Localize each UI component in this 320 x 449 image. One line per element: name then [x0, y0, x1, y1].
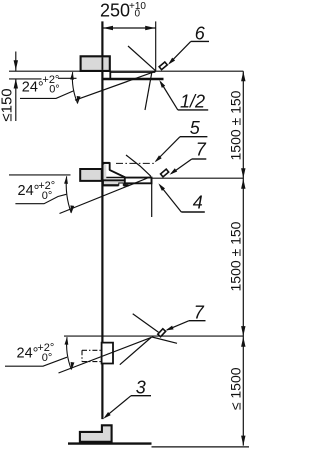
chain label 1500pm150 (top)	[228, 90, 244, 160]
callout 3	[103, 378, 151, 419]
svg-text:≤ 1500: ≤ 1500	[228, 367, 244, 410]
chain line	[242, 71, 244, 445]
top bevel ray 24deg	[75, 71, 156, 100]
third angle text tail	[5, 357, 67, 366]
svg-text:250: 250	[100, 0, 130, 20]
svg-text:6: 6	[195, 23, 206, 43]
chain arrows mid segment	[241, 179, 245, 336]
callout 7 middle	[170, 139, 207, 174]
callout 5	[155, 118, 208, 162]
dimension 250+10/0 text	[100, 0, 146, 20]
dim <=150 vertical line	[14, 52, 18, 122]
callout 4	[158, 183, 204, 212]
top bracket block (grey)	[81, 56, 111, 78]
svg-text:7: 7	[194, 303, 205, 323]
weld symbol at middle joint	[161, 169, 169, 177]
callout 1/2	[159, 80, 208, 111]
third end plate	[102, 343, 113, 364]
middle reference line (left)	[9, 174, 71, 176]
top reference line (extends left and right to chain)	[9, 70, 243, 72]
svg-text:0°: 0°	[49, 83, 60, 95]
middle extension line to chain	[152, 177, 243, 179]
third leader-in line	[133, 314, 159, 333]
svg-text:0°: 0°	[42, 352, 53, 364]
svg-text:1500 ± 150: 1500 ± 150	[228, 90, 244, 160]
svg-text:5: 5	[190, 118, 201, 138]
top plate top edge	[111, 71, 155, 73]
third angle label	[17, 342, 55, 364]
third short right line	[152, 337, 177, 343]
chain label <=1500 (bottom)	[228, 367, 244, 410]
chain arrows bottom segment	[241, 337, 245, 446]
top angle text tail	[20, 91, 74, 99]
third hidden bracket (dash-dot rect)	[82, 350, 104, 361]
top angle label 24deg +2/0	[9, 74, 77, 95]
dim 250 dimension line	[102, 26, 155, 30]
middle angle text tail	[15, 194, 66, 203]
svg-text:7: 7	[196, 139, 207, 159]
callout 7 third	[165, 303, 205, 331]
svg-text:0°: 0°	[42, 190, 53, 202]
chain label 1500pm150 (mid)	[228, 221, 244, 291]
middle left bar (grey)	[80, 169, 102, 181]
callout 6	[168, 23, 209, 64]
top short drop line	[145, 73, 152, 111]
third angle arc	[65, 337, 75, 371]
base block (grey step)	[80, 425, 112, 442]
ground line (bold)	[68, 442, 152, 444]
middle bracket flange strip	[103, 180, 128, 185]
svg-text:24°: 24°	[17, 345, 39, 361]
ground line thin extension	[152, 446, 250, 448]
dim <=150 text	[0, 88, 15, 121]
top leader-in line	[128, 46, 156, 71]
weld symbol at third joint	[158, 329, 166, 337]
svg-text:24°: 24°	[18, 183, 40, 199]
third extension line	[64, 335, 243, 337]
svg-text:3: 3	[136, 378, 146, 398]
middle vertical drop line	[151, 178, 153, 217]
weld symbol at top joint	[159, 62, 167, 70]
column (vertical pipe/profile)	[101, 21, 103, 419]
svg-text:1/2: 1/2	[180, 91, 205, 111]
top plate (bold bottom bar)	[103, 78, 163, 81]
chain arrows top segment	[241, 71, 245, 178]
middle centreline (dash-dot)	[116, 162, 156, 164]
middle bevel ray 24deg	[60, 177, 152, 214]
svg-text:0: 0	[135, 8, 141, 19]
svg-text:4: 4	[193, 193, 203, 213]
middle angle arc	[64, 176, 74, 214]
middle leader-in line	[126, 155, 151, 176]
dim 250 right extension line	[155, 21, 157, 71]
third steep line	[120, 337, 152, 365]
top angle arc	[70, 72, 80, 105]
third bevel ray 24deg	[59, 337, 152, 373]
middle angle label	[18, 180, 56, 202]
svg-text:24°: 24°	[22, 79, 44, 95]
svg-text:1500 ± 150: 1500 ± 150	[228, 221, 244, 291]
middle backing plate	[125, 178, 152, 184]
middle bracket upper body	[103, 163, 125, 180]
svg-text:≤150: ≤150	[0, 88, 15, 121]
